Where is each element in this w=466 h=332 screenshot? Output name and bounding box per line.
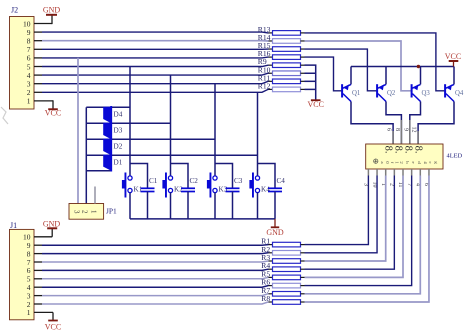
J2 pin number 4: [27, 71, 31, 80]
wire K4 top jog: [258, 164, 276, 189]
wire K4 column: [257, 92, 259, 176]
display digits 8.8.8.8: [383, 146, 424, 154]
wire J2 pin3 to R: [42, 81, 269, 83]
transistor Q2: [376, 84, 386, 101]
R9 pin right: [301, 64, 305, 66]
wire rung 3: [86, 138, 215, 140]
wire J1 pin9 to R1: [42, 244, 269, 247]
wire K2 top jog: [171, 164, 189, 189]
label R9: [258, 57, 267, 66]
R10 pin right: [301, 72, 305, 74]
wire J1 pin6 to R4: [42, 269, 269, 270]
svg-text:R8: R8: [261, 294, 270, 303]
svg-text:1: 1: [27, 308, 31, 317]
wire C3 bottom: [232, 192, 234, 219]
transistor Q4: [444, 84, 454, 101]
R11 pin right: [301, 80, 305, 82]
wire bottom rail: [130, 218, 275, 220]
svg-text:12: 12: [411, 127, 417, 133]
svg-text:C3: C3: [234, 177, 243, 185]
label JP1: [106, 207, 117, 216]
svg-text:1: 1: [89, 210, 97, 214]
wire K1 top jog: [130, 164, 148, 189]
J2 pin number 3: [27, 80, 31, 89]
LED bottom pin 6: [428, 169, 430, 176]
resistor R5: [273, 275, 301, 280]
LED top pin 2: [400, 120, 402, 144]
connector J1: [10, 229, 35, 319]
wire Q4 collector to LED pin: [418, 102, 454, 145]
J2 pin7 stub: [34, 48, 42, 50]
resistor R7: [273, 292, 301, 297]
resistor R1: [273, 242, 301, 247]
R7 pin right: [301, 293, 305, 295]
R8 pin right: [301, 301, 305, 303]
svg-text:8.: 8.: [413, 146, 424, 154]
svg-text:VCC: VCC: [307, 100, 323, 109]
JP1 pin1 stub: [94, 187, 96, 204]
svg-text:J2: J2: [11, 6, 18, 15]
label C1: [149, 177, 158, 185]
wire J2 pin9 to R: [42, 31, 269, 34]
label R11: [258, 73, 271, 82]
transistor Q3: [411, 84, 421, 101]
svg-text:e: e: [411, 161, 416, 163]
R top pin left 7: [269, 88, 273, 90]
svg-text:JP1: JP1: [106, 207, 117, 216]
svg-text:4LED: 4LED: [447, 152, 463, 159]
LED top pin label 8: [394, 128, 400, 131]
wire K2 bottom: [170, 193, 172, 219]
LED bottom pin label 2: [389, 183, 395, 186]
wire Q2 collector to LED pin: [386, 102, 401, 145]
J1 pin2 stub: [34, 303, 42, 305]
wire R9 to VCC rail: [305, 65, 316, 100]
R5 pin right: [301, 276, 305, 278]
LED bottom pin 3: [367, 169, 369, 176]
svg-text:6: 6: [386, 128, 392, 131]
wire pin6 column to JP1: [77, 58, 79, 204]
wire J2 pin8 to R: [42, 40, 269, 42]
resistor R12: [273, 87, 301, 92]
svg-text:C1: C1: [149, 177, 158, 185]
J2 pin number 5: [27, 62, 31, 71]
svg-text:3: 3: [72, 210, 80, 214]
J2 pin6 stub: [34, 57, 42, 59]
J2 pin1 stub: [34, 100, 53, 102]
label R16: [258, 49, 271, 58]
LED top pin label 9: [402, 128, 408, 131]
wire R14 to Q3 base: [305, 41, 412, 91]
wire J2 pin6 to R: [42, 56, 269, 59]
J2 pin9 stub: [34, 31, 42, 33]
label R1: [261, 237, 270, 246]
svg-text:J1: J1: [10, 221, 17, 230]
wire R10 to VCC rail: [305, 72, 316, 74]
svg-text:GND: GND: [43, 220, 61, 229]
power VCC (J2): [45, 109, 61, 118]
power VCC (pull-ups): [307, 100, 323, 109]
LED bottom pin label 7: [406, 183, 412, 186]
J1 pin7 stub: [34, 261, 42, 263]
J1 pin number 9: [27, 241, 31, 250]
label J1: [10, 221, 17, 230]
J1 pin number 2: [27, 300, 31, 309]
label Q3: [422, 90, 431, 97]
R13 pin right: [301, 32, 305, 34]
svg-text:D1: D1: [114, 159, 123, 167]
button K2: [162, 173, 172, 198]
wire K4 bottom: [257, 193, 259, 219]
svg-text:D2: D2: [114, 143, 123, 151]
wire K3 bottom: [214, 193, 216, 219]
svg-text:Q4: Q4: [455, 90, 464, 97]
label K3: [219, 186, 228, 194]
label Q4: [455, 90, 464, 97]
capacitor C2: [181, 188, 195, 191]
resistor R6: [273, 283, 301, 288]
wire rung 5: [86, 170, 111, 172]
wire R4 to LED pin: [305, 176, 395, 270]
diode D4: [103, 107, 111, 124]
label J2: [11, 6, 18, 15]
label R7: [261, 286, 270, 295]
R7 pin left: [269, 293, 273, 295]
R6 pin right: [301, 285, 305, 287]
wire Q3 collector to LED pin: [410, 102, 421, 145]
LED bottom pin 2: [393, 169, 395, 176]
LED bottom pin label 10: [371, 182, 377, 188]
R4 pin right: [301, 268, 305, 270]
wire R6 to LED pin: [305, 176, 412, 286]
wire pin10 to GND: [51, 15, 53, 24]
button K3: [207, 173, 217, 198]
resistor R13: [273, 31, 301, 36]
resistor R11: [273, 79, 301, 84]
svg-text:C2: C2: [190, 177, 199, 185]
label R3: [261, 253, 270, 262]
resistor R9: [273, 63, 301, 68]
R3 pin left: [269, 260, 273, 262]
wire K3 column: [214, 84, 216, 177]
wire R1 to LED pin: [305, 176, 369, 245]
svg-text:VCC: VCC: [45, 109, 61, 118]
power VCC (J1): [45, 321, 61, 332]
R top pin left 2: [269, 48, 273, 50]
label C4: [277, 177, 286, 185]
label 4LED: [447, 152, 463, 159]
capacitor C1: [141, 188, 155, 191]
label D3: [114, 127, 123, 135]
label R10: [258, 65, 271, 74]
J1 pin1 stub: [34, 311, 53, 313]
J2 pin8 stub: [34, 40, 42, 42]
power VCC (rail): [445, 52, 461, 67]
R5 pin left: [269, 276, 273, 278]
label K4: [261, 186, 270, 194]
LED bottom pin 1: [385, 169, 387, 176]
wire pin1 to VCC: [52, 100, 54, 109]
diode D1: [103, 155, 111, 171]
J2 pin number 7: [27, 45, 31, 54]
svg-text:8.: 8.: [393, 146, 404, 154]
label C3: [234, 177, 243, 185]
wire C4 bottom: [274, 192, 276, 219]
resistor R8: [273, 300, 301, 305]
resistor R10: [273, 71, 301, 76]
wire J1 pin2 to R8: [42, 302, 269, 304]
wire diode rail: [85, 107, 87, 203]
wire R11 to VCC rail: [305, 80, 316, 82]
J1 pin number 7: [27, 258, 31, 267]
wire ghost mark: [1, 107, 8, 124]
junction on rail: [417, 65, 420, 68]
wire rung 1: [86, 106, 130, 108]
svg-text:⊕: ⊕: [373, 157, 379, 166]
wire J1 pin7 to R3: [42, 261, 269, 262]
svg-text:D3: D3: [114, 127, 123, 135]
svg-text:2: 2: [81, 210, 89, 214]
R3 pin right: [301, 260, 305, 262]
wire J1 pin5 to R5: [42, 277, 269, 278]
wire R15 to Q2 base: [305, 49, 377, 91]
wire J1 pin3 to R7: [42, 294, 269, 296]
J2 pin10 stub: [34, 23, 52, 25]
wire diode cathode bar: [110, 106, 112, 172]
wire J1 pin1 to VCC: [52, 312, 54, 320]
LED bottom pin 4: [419, 169, 421, 176]
diode D2: [103, 139, 111, 156]
R12 pin right: [301, 88, 305, 90]
J2 pin number 2: [27, 88, 31, 97]
J1 pin number 5: [27, 275, 31, 284]
label R4: [261, 261, 270, 270]
resistor R4: [273, 267, 301, 272]
wire J2 pin4 to R: [42, 73, 269, 75]
J1 pin number 8: [27, 249, 31, 258]
J1 pin4 stub: [34, 286, 42, 288]
J1 pin6 stub: [34, 269, 42, 271]
LED bottom pin label 11: [397, 182, 403, 188]
J2 pin3 stub: [34, 83, 42, 85]
label Q1: [352, 90, 360, 97]
J2 pin number 1: [27, 97, 31, 106]
wire K2 column: [170, 75, 172, 176]
J1 pin number 1: [27, 308, 31, 317]
LED top pin label 12: [411, 127, 417, 133]
display pin names row: [380, 161, 439, 164]
R top pin left 5: [269, 72, 273, 74]
wire J1 pin4 to R6: [42, 286, 269, 288]
wire Q3 emitter riser: [420, 67, 422, 85]
wire R13 to Q4 base: [305, 33, 445, 91]
J1 pin5 stub: [34, 278, 42, 280]
connector J2: [10, 17, 35, 110]
LED top pin label 6: [386, 128, 392, 131]
R8 pin left: [269, 301, 273, 303]
LED bottom pin label 3: [363, 183, 369, 186]
resistor R3: [273, 259, 301, 264]
LED top pin 3: [409, 120, 411, 144]
R1 pin left: [269, 244, 273, 246]
ground GND (J2): [43, 6, 61, 15]
wire R3 to LED pin: [305, 176, 386, 262]
label R5: [261, 269, 270, 278]
LED bottom pin label 6: [423, 183, 429, 186]
svg-text:a: a: [380, 161, 385, 163]
label R8: [261, 294, 270, 303]
label R2: [261, 245, 270, 254]
display 4LED box: [366, 144, 443, 169]
wire Q2 emitter riser: [385, 67, 387, 85]
label K2: [174, 186, 183, 194]
wire R2 to LED pin: [305, 176, 378, 253]
wire R5 to LED pin: [305, 176, 404, 278]
J2 pin number 8: [27, 37, 31, 46]
svg-text:8.: 8.: [403, 146, 414, 154]
LED bottom pin label 4: [415, 183, 421, 186]
LED top pin 4: [417, 131, 419, 144]
wire Q4 emitter riser: [453, 67, 455, 85]
svg-text:VCC: VCC: [45, 322, 61, 331]
wire C2 bottom: [187, 192, 189, 219]
R15 pin right: [301, 48, 305, 50]
wire K1 bottom: [129, 193, 131, 219]
wire C1 bottom: [147, 192, 149, 219]
label R13: [258, 25, 271, 34]
J1 pin number 4: [27, 283, 31, 292]
J1 pin9 stub: [34, 244, 42, 246]
wire Q1 collector to LED pin: [351, 102, 393, 145]
wire J1 pin8 to R2: [42, 252, 269, 255]
connector JP1: [69, 204, 104, 220]
label Q2: [387, 90, 396, 97]
J1 pin8 stub: [34, 253, 42, 255]
wire J2 pin2 to R: [42, 89, 269, 92]
J2 pin4 stub: [34, 74, 42, 76]
LED bottom pin label 1: [380, 183, 386, 186]
svg-text:8: 8: [394, 128, 400, 131]
R4 pin left: [269, 268, 273, 270]
J2 pin2 stub: [34, 91, 42, 93]
svg-text:D4: D4: [114, 111, 123, 119]
wire rung 4: [86, 154, 257, 156]
label R6: [261, 278, 270, 287]
transistor Q1: [341, 84, 351, 101]
wire K1 column: [129, 67, 131, 177]
LED bottom pin 10: [376, 169, 378, 176]
label K1: [134, 186, 143, 194]
LED bottom pin 7: [411, 169, 413, 176]
R2 pin left: [269, 252, 273, 254]
label R15: [258, 41, 271, 50]
diode D3: [103, 123, 111, 140]
LED bottom pin 11: [402, 169, 404, 176]
wire R7 to LED pin: [305, 176, 421, 294]
resistor R2: [273, 251, 301, 256]
svg-text:9: 9: [402, 128, 408, 131]
J1 pin number 10: [23, 233, 31, 242]
label R12: [258, 81, 271, 90]
R14 pin right: [301, 40, 305, 42]
wire rung 2: [86, 122, 170, 124]
ground GND (J1): [43, 220, 61, 229]
ground GND (rail): [266, 219, 284, 237]
J1 pin number 3: [27, 291, 31, 300]
J1 pin number 6: [27, 266, 31, 275]
svg-text:C4: C4: [277, 177, 286, 185]
svg-text:GND: GND: [43, 6, 61, 15]
svg-text:Q3: Q3: [422, 90, 431, 97]
capacitor C4: [268, 188, 282, 191]
LED top pin 1: [392, 131, 394, 144]
button K4: [249, 173, 259, 198]
R top pin left 0: [269, 32, 273, 34]
svg-text:R12: R12: [258, 81, 271, 90]
J2 pin number 10: [23, 19, 31, 28]
svg-text:c: c: [428, 161, 433, 163]
wire K3 top jog: [215, 164, 233, 189]
J2 pin number 9: [27, 28, 31, 37]
svg-text:1: 1: [27, 97, 31, 106]
wire J1 pin10 to GND: [51, 228, 53, 237]
label D2: [114, 143, 123, 151]
R6 pin left: [269, 285, 273, 287]
wire R8 to LED pin: [305, 176, 429, 303]
R top pin left 1: [269, 40, 273, 42]
button K1: [122, 173, 132, 198]
label D4: [114, 111, 123, 119]
wire emitter rail: [351, 66, 454, 68]
JP1 pin digits: [72, 210, 97, 214]
capacitor C3: [226, 188, 240, 191]
wire J2 pin5 to R: [42, 65, 269, 66]
svg-text:8.: 8.: [383, 146, 394, 154]
label C2: [190, 177, 199, 185]
R16 pin right: [301, 56, 305, 58]
wire Q1 emitter riser: [350, 67, 352, 85]
wire R12 to VCC rail: [305, 88, 316, 90]
wire R16 to Q1 base: [305, 57, 342, 91]
svg-text:Q2: Q2: [387, 90, 396, 97]
resistor R16: [273, 55, 301, 60]
J2 pin5 stub: [34, 66, 42, 68]
R1 pin right: [301, 244, 305, 246]
R2 pin right: [301, 252, 305, 254]
R top pin left 6: [269, 80, 273, 82]
svg-text:Q1: Q1: [352, 90, 360, 97]
label R14: [258, 33, 271, 42]
label D1: [114, 159, 123, 167]
J1 pin3 stub: [34, 295, 42, 297]
resistor R15: [273, 47, 301, 52]
svg-text:VCC: VCC: [445, 52, 461, 61]
J2 pin number 6: [27, 54, 31, 63]
resistor R14: [273, 39, 301, 44]
display symbol: [373, 157, 379, 166]
J1 pin10 stub: [34, 236, 52, 238]
R top pin left 4: [269, 64, 273, 66]
wire J2 pin7 to R: [42, 48, 269, 50]
R top pin left 3: [269, 56, 273, 58]
